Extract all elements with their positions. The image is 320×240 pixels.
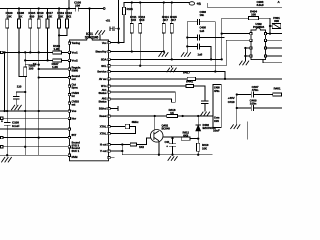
wire R119 down	[58, 28, 60, 51]
svg-text:+: +	[1, 119, 3, 123]
value label R612	[183, 130, 190, 137]
value label R416	[169, 108, 176, 115]
svg-text:4MHz: 4MHz	[132, 120, 140, 124]
node dots +B bus	[131, 1, 133, 3]
wire R441 to C408	[193, 86, 205, 101]
svg-text:10K: 10K	[6, 14, 12, 18]
capacitor C101	[13, 92, 25, 105]
wire rail B below R110	[38, 28, 40, 155]
svg-text:f/4T: f/4T	[72, 133, 77, 137]
wire R409 to transistor base	[137, 138, 147, 144]
wire R612 to diode net	[190, 138, 198, 140]
ground U402	[239, 61, 249, 66]
value labels top right resistors	[130, 15, 177, 22]
ground bottom rail	[168, 156, 178, 161]
value label IC01	[85, 32, 99, 40]
svg-text:1K2: 1K2	[139, 145, 144, 149]
svg-text:XTAL: XTAL	[100, 125, 107, 129]
svg-text:3.0uF: 3.0uF	[257, 3, 265, 7]
resistor R414	[163, 3, 165, 24]
wire decoupling bus	[186, 22, 188, 52]
ground hatch above IC	[95, 30, 105, 35]
net label +33V	[228, 96, 235, 104]
value label R106	[52, 44, 61, 69]
wire R417 to right edge	[196, 78, 283, 80]
wire branch rail x4.6	[4, 52, 6, 111]
capacitor C407 row	[237, 92, 273, 97]
wire +B net to right edge	[208, 3, 282, 7]
wire collector to Reset row	[154, 116, 156, 130]
svg-text:SDA: SDA	[101, 58, 107, 62]
wire U402 ground bus	[245, 48, 249, 60]
wire U402 bottom leg	[263, 60, 282, 63]
transistor Q402	[150, 130, 163, 143]
capacitor C405	[187, 35, 224, 40]
wire down to IC01 top	[89, 9, 91, 38]
svg-text:820: 820	[29, 14, 34, 18]
pin left edge connector P3	[0, 136, 3, 138]
ground on SCL net	[171, 66, 173, 68]
svg-text:50/60: 50/60	[72, 68, 79, 72]
svg-text:1.2K: 1.2K	[54, 47, 61, 51]
svg-text:BZX79C30: BZX79C30	[203, 126, 217, 130]
node dots Reset row	[154, 115, 156, 117]
capacitor C411	[170, 138, 176, 155]
wire rail C	[24, 52, 26, 155]
wire rail A below R100	[6, 28, 8, 123]
resistor R117	[47, 9, 49, 20]
resistor R417	[187, 77, 195, 80]
wire R104 down	[29, 28, 31, 52]
wire step net	[121, 145, 123, 155]
wire Service row to right edge	[110, 72, 225, 79]
pin left edge connector P1	[0, 51, 3, 53]
wire row to R107	[25, 59, 53, 61]
pin labels IC01 left side	[72, 41, 81, 159]
resistor R612	[181, 137, 190, 140]
svg-text:H out: H out	[100, 143, 107, 147]
svg-text:PCF8594: PCF8594	[253, 25, 265, 29]
resistor R100	[6, 9, 8, 20]
value label Q402	[162, 124, 171, 131]
ground near IC01 top	[99, 35, 101, 40]
wire row P3 to IC	[3, 137, 68, 139]
resistor R108	[18, 9, 20, 20]
diode D401	[196, 116, 201, 125]
node C106/IC junction	[88, 7, 90, 9]
capacitor C409 row	[237, 105, 282, 110]
ground on Stand-by net	[159, 52, 169, 57]
svg-text:0.1uF: 0.1uF	[12, 124, 20, 128]
wire row pin5	[39, 77, 69, 79]
wire R106 to IC pin	[61, 51, 68, 53]
svg-text:470n: 470n	[252, 88, 259, 92]
resistor R404	[249, 17, 259, 20]
wire R107 to IC pin	[61, 59, 68, 61]
wire R111 to Stand-by row	[131, 33, 133, 52]
svg-text:470n: 470n	[214, 90, 220, 93]
svg-text:Status: Status	[99, 91, 107, 95]
wire base row right	[147, 137, 182, 139]
value label C407	[250, 85, 281, 105]
svg-text:1K5: 1K5	[131, 18, 137, 22]
value label U402	[253, 22, 265, 29]
wire R414 to Stand-by row	[163, 33, 165, 52]
pin left edge connector P4	[0, 146, 3, 148]
svg-text:Vcc2: Vcc2	[72, 58, 79, 62]
pin IC01 left pins	[68, 42, 70, 44]
wire AV2 row	[110, 99, 175, 102]
svg-text:+31: +31	[106, 19, 111, 23]
wire row P4 to IC	[3, 146, 68, 148]
wire vertical feed top right of bank	[68, 0, 70, 9]
capacitor C408	[202, 101, 209, 111]
resistor R119	[58, 9, 60, 20]
svg-text:int: int	[72, 94, 75, 98]
wire R404 right leg	[259, 18, 271, 33]
node dots bottom area	[121, 143, 123, 145]
wire Stand-by row	[110, 51, 164, 53]
wire floating stub bottom right	[246, 122, 248, 139]
wire XTAL1 row	[110, 126, 135, 128]
crystal X401	[125, 124, 129, 129]
connector P301	[272, 23, 280, 28]
wire row to R106	[3, 51, 53, 53]
connector +B terminal	[189, 2, 194, 5]
capacitor C108	[4, 123, 10, 156]
wire R108 down	[19, 28, 24, 77]
resistor R121 choke feed	[123, 3, 125, 8]
svg-text:1K5: 1K5	[139, 18, 145, 22]
capacitor C406	[187, 44, 211, 60]
wire SCL row to U402	[110, 40, 250, 65]
ground below +33V rail	[230, 124, 240, 129]
wire W in row	[110, 85, 186, 87]
wire Vcc row to choke	[110, 42, 124, 44]
node terminal circle	[103, 8, 105, 10]
svg-text:R417: R417	[183, 71, 190, 75]
wire R415 to SDA row	[171, 33, 173, 59]
resistor R110	[38, 9, 40, 20]
svg-text:ext: ext	[72, 102, 76, 106]
capacitor C112 input stub	[110, 27, 119, 31]
wire AV sw row	[110, 78, 187, 80]
svg-text:100: 100	[29, 66, 34, 70]
svg-text:100: 100	[251, 13, 256, 17]
svg-text:R451: R451	[274, 86, 281, 90]
svg-text:4K7: 4K7	[163, 18, 169, 22]
wire R410 to bottom rail	[197, 151, 199, 154]
wire top supply bus	[0, 8, 69, 10]
resistor R451	[273, 93, 282, 96]
wire V out row	[110, 150, 122, 152]
wire XTAL2 row	[110, 127, 135, 134]
svg-text:10n: 10n	[200, 13, 205, 17]
svg-text:STV2246: STV2246	[85, 36, 99, 40]
svg-text:100n: 100n	[250, 102, 257, 106]
wire U402 right pin rows	[267, 34, 282, 56]
svg-text:Reset: Reset	[99, 114, 106, 118]
svg-text:10K: 10K	[38, 14, 44, 18]
svg-text:R441: R441	[186, 80, 193, 84]
capacitor C403	[187, 19, 215, 71]
pin U402 left pins	[250, 33, 252, 35]
svg-text:300: 300	[274, 19, 279, 23]
value label R404	[250, 10, 280, 23]
svg-text:Stand-by: Stand-by	[95, 50, 107, 54]
svg-text:Tuning: Tuning	[72, 41, 81, 45]
node dots left zone	[18, 51, 20, 53]
svg-text:10K: 10K	[47, 14, 53, 18]
ground below C408	[200, 112, 210, 117]
wire choke to ground	[123, 15, 125, 43]
op-amp U1 main IC IC01 body	[70, 37, 109, 161]
wire H out row	[110, 144, 130, 146]
wire SDA row to U402	[110, 18, 250, 59]
ground below C101	[11, 105, 21, 110]
svg-text:12K: 12K	[58, 14, 64, 18]
wire R117 down	[47, 28, 49, 60]
svg-text:C410: C410	[228, 100, 235, 104]
node dots SDA/SCL rows	[117, 41, 119, 43]
svg-text:6K8: 6K8	[183, 133, 188, 137]
svg-text:out: out	[72, 77, 76, 81]
resistor R112	[66, 9, 68, 20]
svg-text:Service: Service	[97, 70, 107, 74]
value label R103	[1, 62, 37, 128]
resistor R107	[53, 59, 62, 62]
op-amp U402 EEPROM body	[251, 28, 266, 60]
value label R417	[183, 71, 193, 84]
wire emitter to bottom rail	[158, 141, 160, 154]
resistor R441	[186, 84, 194, 87]
svg-text:BS/od: BS/od	[99, 107, 107, 111]
wire long rail right of IC	[118, 0, 120, 43]
svg-text:V out: V out	[100, 149, 107, 153]
wire row P2 to IC	[3, 117, 68, 119]
pin U402 right pins	[264, 33, 266, 35]
resistor R112b	[139, 3, 141, 24]
resistor R111	[131, 3, 133, 24]
svg-text:10K: 10K	[202, 146, 207, 150]
resistor R103	[24, 67, 27, 77]
svg-text:110: 110	[17, 85, 22, 89]
svg-text:SCL: SCL	[101, 64, 107, 68]
svg-text:CN4: CN4	[214, 120, 219, 123]
wire +B supply bus	[124, 2, 189, 4]
svg-text:104: 104	[75, 4, 80, 8]
resistor R415	[171, 3, 173, 24]
capacitor C106	[69, 6, 90, 11]
svg-text:Vcc: Vcc	[102, 41, 107, 45]
svg-text:Vss: Vss	[72, 109, 77, 113]
pin labels IC01 right side	[95, 41, 107, 153]
svg-text:Status: Status	[99, 100, 107, 104]
wire Vss bus row	[0, 110, 68, 112]
resistor R416	[167, 114, 178, 117]
value label D401	[165, 123, 217, 150]
wire C106 to terminal	[90, 8, 104, 10]
svg-text:Vcc1: Vcc1	[72, 50, 79, 54]
resistor R106	[53, 51, 62, 54]
svg-text:2K2: 2K2	[66, 14, 72, 18]
wire +33V rail	[236, 95, 238, 125]
wire row pin4	[39, 68, 69, 70]
wire AV1 row	[110, 92, 175, 102]
wire Reset row	[110, 115, 213, 117]
svg-text:+B: +B	[197, 2, 202, 6]
svg-text:R121: R121	[127, 7, 134, 11]
ground bottom left	[2, 157, 12, 162]
wire BS stub	[110, 107, 118, 111]
svg-text:BC548: BC548	[162, 127, 171, 131]
svg-text:1.2K: 1.2K	[52, 65, 59, 69]
svg-text:XTAL: XTAL	[100, 132, 107, 136]
wire branch R103 top	[25, 64, 39, 66]
pin left edge connector P2	[0, 117, 3, 119]
svg-text:4K7: 4K7	[171, 18, 177, 22]
pin IC01 right pins	[108, 42, 110, 44]
wire R112b to SCL row	[139, 33, 141, 66]
svg-text:AV sw: AV sw	[99, 77, 108, 81]
svg-text:SVC 1: SVC 1	[72, 149, 80, 153]
wire R112 to rail	[59, 28, 67, 35]
connector CN401 annotation box	[213, 85, 221, 128]
value label C106	[74, 1, 81, 8]
svg-text:1u5: 1u5	[200, 29, 205, 33]
wire bottom rail	[122, 154, 212, 156]
wire bottom row	[0, 154, 68, 156]
wire R404 left leg	[222, 17, 249, 19]
svg-text:Sync: Sync	[72, 85, 79, 89]
value label R100	[6, 11, 73, 18]
svg-text:1u5: 1u5	[198, 53, 203, 57]
value label C203	[257, 0, 281, 7]
resistor R410	[197, 143, 200, 151]
node dots U402	[244, 47, 246, 49]
resistor R409	[130, 143, 136, 146]
svg-text:NVM: NVM	[72, 155, 79, 159]
resistor R104	[29, 9, 31, 20]
